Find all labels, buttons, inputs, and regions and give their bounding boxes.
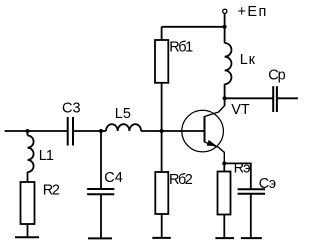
wire node to C4 [100,131,102,189]
node junction rail [223,25,227,29]
svg-text:Lк: Lк [240,52,256,68]
wire Rb1 to rail [161,27,163,40]
node junction emitter [222,161,226,165]
wire Lk to collector [224,84,226,106]
wire rail to terminal [224,14,226,27]
capacitor C4 [87,189,114,194]
node junction L1 [26,129,30,133]
input wire [5,130,68,132]
wire Re to ground [223,215,225,239]
svg-text:R2: R2 [43,183,60,199]
wire rail to Lk [224,27,226,43]
wire emitter node to Ce [224,163,251,189]
transistor circle [182,110,224,152]
collector lead [205,106,225,117]
output wire [277,97,298,99]
wire node to L1 [27,131,29,136]
emitter lead [205,142,225,163]
capacitor C3 [68,117,73,146]
node junction base divider [160,129,164,133]
wire C4 to ground [100,194,102,238]
wire node to Rb1 [161,83,163,131]
inductor L1 [28,136,34,173]
wire Ce to ground [250,194,252,238]
resistor Rb2 [155,172,168,214]
wire L5 to base [141,130,203,132]
capacitor Ce [238,189,266,194]
svg-text:C4: C4 [104,170,123,186]
svg-text:Rб1: Rб1 [169,40,193,56]
wire node to Rb2 [161,131,163,172]
wire C3 to node [73,130,106,132]
wire Rb2 to ground [161,214,163,238]
inductor Lk [225,43,232,84]
terminal +Ep [223,9,227,13]
resistor Rb1 [155,40,168,83]
svg-text:L5: L5 [115,106,131,122]
wire R2 to ground [27,224,29,237]
ground bar Re [215,237,234,239]
emitter arrow [207,140,217,146]
svg-text:Cэ: Cэ [259,176,276,192]
svg-text:VT: VT [231,102,250,118]
svg-text:+Eп: +Eп [238,4,268,20]
base bar [204,116,206,142]
capacitor Cp [273,86,277,112]
svg-text:L1: L1 [39,148,54,164]
svg-text:Rб2: Rб2 [169,172,193,188]
transistor VT [182,106,225,164]
svg-text:Cр: Cр [268,67,285,83]
inductor L5 [106,124,141,131]
wire emitter node to Re [223,163,225,171]
ground bar Ce [241,237,262,239]
ground bar C4 [88,237,112,239]
node junction C4 [99,129,103,133]
wire L1 to R2 [27,172,29,182]
wire collector node to Cp [225,97,274,99]
ground bar Rb2 [152,237,171,239]
node junction collector [223,96,227,100]
resistor R2 [21,182,35,224]
supply rail wire [162,26,225,28]
svg-text:C3: C3 [62,100,81,116]
resistor Re [218,172,231,215]
ground bar R2 [15,236,39,238]
